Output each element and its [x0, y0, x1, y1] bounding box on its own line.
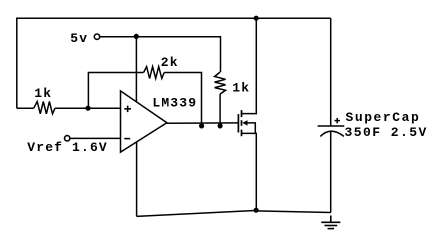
wire plus input	[17, 107, 34, 109]
wire mosfet source lead	[242, 133, 257, 210]
wire opamp V+	[135, 37, 137, 102]
capacitor C1 bottom plate	[320, 131, 344, 136]
terminal Vref circle	[65, 136, 70, 141]
capacitor plus polarity	[335, 118, 341, 123]
wire cap top lead	[330, 18, 332, 126]
gate bar	[237, 114, 239, 132]
resistor R1 1k input zigzag	[34, 102, 55, 114]
wire bottom right	[256, 211, 331, 213]
op-amp U1 LM339 triangle	[121, 91, 167, 152]
junction dot bottom	[254, 208, 259, 213]
resistor R2 2k feedback zigzag	[144, 67, 165, 79]
wire top rail	[17, 18, 331, 108]
junction dot plus input	[85, 106, 90, 111]
svg-text:2k: 2k	[161, 55, 179, 70]
body wire	[247, 123, 256, 133]
wire 2k to output	[164, 73, 201, 124]
junction dot output B	[218, 123, 223, 128]
wire bottom left	[137, 210, 257, 216]
terminal 5v circle	[94, 34, 99, 39]
wire feedback	[88, 73, 143, 109]
svg-text:1k: 1k	[34, 86, 52, 101]
op-amp minus sign	[124, 138, 130, 140]
junction dot 5v	[134, 34, 139, 39]
wire opamp V-	[136, 142, 138, 216]
ground	[321, 216, 340, 229]
junction dot output A	[199, 123, 204, 128]
wire cap bottom lead	[330, 132, 332, 213]
resistor R3 1k pullup zigzag	[215, 72, 226, 94]
svg-text:1k: 1k	[232, 80, 250, 95]
svg-text:5v: 5v	[70, 31, 88, 46]
svg-text:350F 2.5V: 350F 2.5V	[345, 125, 428, 140]
junction dot top rail	[254, 16, 259, 21]
op-amp plus sign	[124, 106, 131, 113]
channel segment bottom	[241, 130, 243, 137]
wire minus input	[70, 137, 120, 139]
svg-text:SuperCap: SuperCap	[346, 110, 421, 125]
channel segment top	[241, 110, 243, 117]
svg-text:LM339: LM339	[152, 95, 197, 110]
svg-text:Vref 1.6V: Vref 1.6V	[27, 140, 108, 155]
channel segment middle	[241, 120, 243, 126]
wire 1k pullup lead	[219, 94, 221, 123]
transistor Q1 mosfet	[238, 110, 255, 136]
mosfet body arrow	[242, 120, 247, 125]
capacitor C1 top plate	[318, 125, 345, 127]
wire mosfet drain lead	[242, 18, 257, 113]
wire output to gate	[167, 122, 239, 124]
wire 5v rail	[100, 37, 221, 72]
